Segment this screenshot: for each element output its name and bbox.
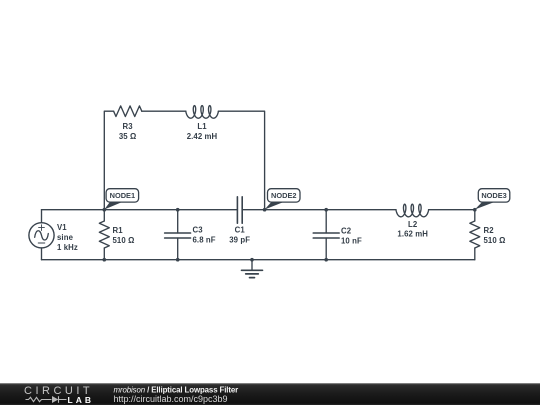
svg-text:C1: C1 (235, 226, 246, 235)
svg-text:1.62 mH: 1.62 mH (397, 230, 428, 239)
svg-text:sine: sine (57, 233, 74, 242)
svg-text:L2: L2 (408, 220, 418, 229)
svg-text:6.8 nF: 6.8 nF (193, 236, 216, 245)
svg-text:LAB: LAB (68, 395, 94, 405)
svg-text:2.42 mH: 2.42 mH (187, 132, 218, 141)
svg-text:R1: R1 (113, 226, 124, 235)
svg-text:R3: R3 (123, 122, 134, 131)
svg-text:http://circuitlab.com/c9pc3b9: http://circuitlab.com/c9pc3b9 (114, 394, 228, 404)
svg-text:L1: L1 (197, 122, 207, 131)
svg-text:510 Ω: 510 Ω (484, 236, 506, 245)
svg-text:1 kHz: 1 kHz (57, 243, 78, 252)
svg-text:C3: C3 (193, 226, 204, 235)
svg-text:C2: C2 (341, 226, 352, 235)
svg-text:35 Ω: 35 Ω (119, 132, 137, 141)
svg-text:510 Ω: 510 Ω (113, 236, 135, 245)
svg-text:R2: R2 (484, 226, 495, 235)
svg-text:V1: V1 (57, 223, 67, 232)
svg-text:10 nF: 10 nF (341, 236, 362, 245)
svg-text:NODE3: NODE3 (481, 191, 506, 200)
svg-text:NODE2: NODE2 (271, 191, 296, 200)
svg-text:39 pF: 39 pF (229, 236, 250, 245)
svg-text:NODE1: NODE1 (110, 191, 135, 200)
